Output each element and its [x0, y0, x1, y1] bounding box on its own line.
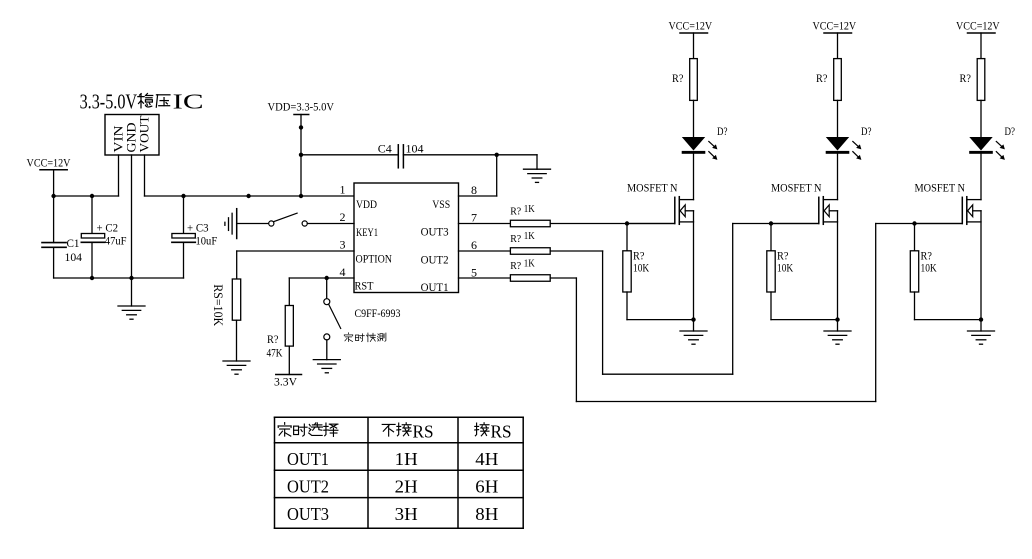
svg-text:4: 4 [340, 265, 346, 279]
svg-text:RS=10K: RS=10K [211, 284, 225, 326]
wire C3 top [183, 196, 185, 234]
ground stage 3 [968, 331, 995, 344]
svg-text:8H: 8H [475, 504, 498, 524]
junction C2 bottom [90, 276, 94, 280]
wire R1K row7 to MOSFET1 gate [550, 223, 675, 225]
svg-text:3: 3 [340, 237, 346, 251]
svg-text:1K: 1K [524, 231, 535, 242]
svg-text:OUT3: OUT3 [421, 224, 449, 238]
resistor R? pull-up stage 3 [960, 59, 985, 101]
svg-text:1K: 1K [524, 204, 535, 215]
LED D? stage 1 [682, 137, 718, 160]
junction C2 top [90, 194, 94, 198]
resistor RS=10K [211, 279, 241, 326]
junction gate / 10K stage 3 [912, 221, 916, 225]
svg-text:5: 5 [471, 265, 477, 279]
ground VSS [524, 169, 551, 182]
ground main [118, 306, 145, 319]
svg-text:8: 8 [471, 183, 477, 197]
resistor R? pull-up stage 2 [816, 59, 841, 101]
junction pin8 riser at C4 net [495, 153, 499, 157]
LED D? stage 2 [826, 137, 862, 160]
svg-text:10K: 10K [921, 262, 938, 274]
wire C2 bottom [91, 242, 93, 278]
svg-text:1: 1 [340, 182, 346, 196]
svg-text:R?: R? [510, 234, 521, 245]
ground stage 2 [824, 331, 851, 344]
regulator U 3.3-5.0V [80, 90, 138, 114]
node VCC=12V (left supply label) [27, 156, 71, 170]
wire regulator VIN pin [118, 155, 120, 196]
svg-text:1K: 1K [524, 259, 535, 270]
svg-text:MOSFET N: MOSFET N [915, 182, 966, 194]
wire RST pin 4 [289, 277, 354, 279]
wire OUT1 pin5 to R 1K [459, 277, 511, 279]
wire ground stub stage 1 [693, 320, 695, 331]
wire pin8 VSS [459, 195, 497, 197]
wire C3 bottom [183, 242, 185, 278]
node VCC=12V stage 1 [669, 20, 713, 33]
svg-text:VCC=12V: VCC=12V [669, 20, 713, 32]
wire top-left rail to regulator VIN [54, 195, 119, 197]
junction GND pin at bottom rail [129, 276, 133, 280]
svg-text:7: 7 [471, 210, 477, 224]
svg-text:6: 6 [471, 238, 477, 252]
wire C4 right segment to ground [403, 154, 537, 156]
table header with-RS CJK + RS [475, 421, 512, 441]
svg-text:4H: 4H [475, 449, 498, 469]
wire gate junction to gate bar stage 3 [915, 223, 963, 225]
svg-text:104: 104 [406, 142, 424, 156]
wire 47K to 3.3V rail [288, 346, 290, 374]
wire MOSFET source down stage 3 [980, 211, 982, 320]
resistor R? 10K stage 3 [910, 250, 937, 292]
svg-text:D?: D? [1005, 126, 1016, 138]
svg-text:VCC=12V: VCC=12V [27, 156, 71, 170]
svg-text:6H: 6H [475, 476, 498, 496]
wire gate junction to gate bar stage 1 [627, 223, 675, 225]
svg-text:2: 2 [340, 210, 346, 224]
wire ground stub [131, 278, 133, 306]
label timing test CJK [344, 333, 386, 342]
transistor MOSFET N stage 2 [771, 182, 838, 224]
svg-text:RS: RS [413, 421, 434, 441]
wire LED to MOSFET drain stage 3 [980, 154, 982, 200]
junction source/ground stage 3 [979, 317, 983, 321]
svg-text:1H: 1H [395, 449, 418, 469]
node VCC=12V stage 2 [813, 20, 857, 33]
svg-text:VCC=12V: VCC=12V [956, 20, 1000, 32]
wire VOUT rail to IC pin 1 [145, 195, 355, 197]
svg-text:VIN: VIN [112, 126, 126, 153]
svg-text:R?: R? [777, 250, 788, 262]
wire 10K bottom to source rail stage 3 [914, 292, 916, 320]
wire R to LED stage 1 [693, 100, 695, 137]
wire switch to ground [326, 340, 328, 360]
wire VCC to R pull-up stage 2 [837, 33, 839, 59]
switch S1 key [269, 213, 308, 226]
ground RS [223, 361, 250, 374]
svg-text:3H: 3H [395, 504, 418, 524]
table header no-RS CJK + RS [382, 421, 433, 441]
touch electrode antenna symbol [225, 209, 237, 239]
svg-text:R?: R? [267, 332, 279, 346]
svg-text:R?: R? [633, 250, 644, 262]
junction RST branch [325, 276, 329, 280]
wire C4 left segment [301, 154, 398, 156]
svg-text:10uF: 10uF [196, 234, 218, 248]
svg-text:2H: 2H [395, 476, 418, 496]
svg-text:OUT2: OUT2 [421, 252, 449, 266]
transistor MOSFET N stage 3 [915, 182, 982, 224]
wire switch to KEY1 pin 2 [307, 223, 354, 225]
svg-text:MOSFET N: MOSFET N [771, 182, 822, 194]
wire regulator GND pin down to bottom rail [131, 155, 133, 278]
wire 10K top stage 1 [626, 224, 628, 251]
svg-text:D?: D? [717, 126, 728, 138]
table timing selection [275, 417, 524, 528]
svg-text:47uF: 47uF [105, 234, 127, 248]
wire R1K row6 to MOSFET2 gate (routed) [550, 250, 602, 252]
svg-text:104: 104 [65, 250, 83, 264]
wire C1 to bottom rail [53, 247, 55, 278]
wire electrode to switch [237, 223, 269, 225]
svg-text:R?: R? [510, 261, 521, 272]
wire ground stub stage 2 [837, 320, 839, 331]
wire 10K top stage 2 [770, 224, 772, 251]
junction C3 top [181, 194, 185, 198]
wire R to LED stage 2 [837, 100, 839, 137]
switch S2 timing test [324, 299, 341, 340]
node VCC=12V stage 3 [956, 20, 1000, 33]
svg-text:3.3V: 3.3V [274, 374, 297, 388]
svg-text:10K: 10K [777, 262, 794, 274]
svg-text:R?: R? [960, 73, 971, 85]
ground timing switch [313, 360, 340, 373]
svg-text:OUT2: OUT2 [287, 476, 329, 496]
svg-text:OUT1: OUT1 [421, 280, 449, 294]
wire OUT3 pin7 to R 1K [459, 223, 511, 225]
IC U1 C9FF-6993 body [354, 183, 459, 293]
resistor R? 10K stage 1 [623, 250, 650, 292]
junction at VCC / top rail [51, 194, 55, 198]
junction stray on VDD rail [246, 194, 250, 198]
wire regulator VOUT pin [144, 155, 146, 196]
junction VDD at pin1 rail [299, 194, 303, 198]
svg-text:VDD: VDD [356, 197, 377, 211]
wire VCC branch down to C1 [53, 196, 55, 243]
svg-text:C1: C1 [67, 236, 80, 250]
svg-text:KEY1: KEY1 [356, 225, 378, 239]
junction VDD upper stray [299, 125, 303, 129]
resistor R? 1K row7 [510, 204, 550, 227]
svg-text:C9FF-6993: C9FF-6993 [355, 306, 401, 320]
wire LED to MOSFET drain stage 2 [837, 154, 839, 200]
wire OPTION pin 3 to RS [237, 250, 354, 252]
svg-text:VOUT: VOUT [138, 115, 152, 152]
wire OUT2 pin6 to R 1K [459, 250, 511, 252]
wire VCC to R pull-up stage 3 [980, 33, 982, 59]
wire R1K row5 to MOSFET3 gate (routed) [550, 277, 576, 279]
svg-text:OPTION: OPTION [356, 251, 393, 265]
svg-text:+ C2: + C2 [97, 221, 119, 235]
table header timing-select CJK [278, 423, 338, 437]
svg-text:VCC=12V: VCC=12V [813, 20, 857, 32]
wire VCC down to top rail [53, 170, 55, 196]
wire MOSFET source down stage 2 [837, 211, 839, 320]
svg-text:+ C3: + C3 [187, 221, 209, 235]
svg-text:IC: IC [173, 90, 204, 114]
capacitor C2 47uF electrolytic [81, 221, 126, 248]
svg-text:R?: R? [672, 73, 683, 85]
svg-text:RS: RS [491, 421, 512, 441]
wire RST to test switch [326, 278, 328, 299]
wire ground stub stage 3 [980, 320, 982, 331]
junction gate / 10K stage 1 [625, 221, 629, 225]
resistor R? 1K row6 [510, 231, 550, 254]
wire gate junction to gate bar stage 2 [771, 223, 819, 225]
junction VDD at C4 line [299, 153, 303, 157]
label title CJK wen-ya (stabilizer) [138, 93, 170, 107]
svg-text:3.3-5.0V: 3.3-5.0V [80, 90, 138, 114]
svg-text:47K: 47K [267, 346, 283, 360]
wire LED to MOSFET drain stage 1 [693, 154, 695, 200]
node 3.3V supply [274, 374, 302, 388]
junction source/ground stage 2 [835, 317, 839, 321]
wire 10K bottom to source rail stage 1 [626, 292, 628, 320]
svg-text:C4: C4 [378, 142, 392, 156]
wire VSS ground stub [536, 155, 538, 169]
svg-text:VSS: VSS [432, 197, 450, 211]
junction source/ground stage 1 [691, 317, 695, 321]
wire 10K bottom to source rail stage 2 [770, 292, 772, 320]
junction gate / 10K stage 2 [769, 221, 773, 225]
wire MOSFET source down stage 1 [693, 211, 695, 320]
resistor R? 1K row5 [510, 259, 550, 282]
svg-text:VDD=3.3-5.0V: VDD=3.3-5.0V [268, 100, 335, 114]
svg-text:RST: RST [355, 278, 375, 292]
capacitor C1 [42, 236, 82, 264]
svg-text:R?: R? [510, 207, 521, 218]
resistor R? 10K stage 2 [767, 250, 794, 292]
wire C2 top [91, 196, 93, 234]
wire VDD down [300, 115, 302, 197]
svg-text:10K: 10K [633, 262, 650, 274]
wire RS to ground [236, 320, 238, 361]
svg-text:GND: GND [125, 123, 139, 153]
ground stage 1 [680, 331, 707, 344]
transistor MOSFET N stage 1 [627, 182, 694, 224]
svg-text:R?: R? [921, 250, 932, 262]
wire 10K top stage 3 [914, 224, 916, 251]
regulator body box [105, 115, 159, 156]
wire VCC to R pull-up stage 1 [693, 33, 695, 59]
wire bottom rail [54, 277, 184, 279]
node VDD=3.3-5.0V [268, 100, 335, 115]
svg-text:R?: R? [816, 73, 827, 85]
resistor R? 47K [267, 306, 294, 360]
svg-text:OUT3: OUT3 [287, 504, 329, 524]
svg-text:OUT1: OUT1 [287, 449, 329, 469]
svg-text:D?: D? [861, 126, 872, 138]
capacitor C3 10uF electrolytic [172, 221, 218, 248]
svg-text:MOSFET N: MOSFET N [627, 182, 678, 194]
wire R to LED stage 3 [980, 100, 982, 137]
resistor R? pull-up stage 1 [672, 59, 697, 101]
capacitor C4 104 [378, 142, 424, 168]
LED D? stage 3 [969, 137, 1005, 160]
